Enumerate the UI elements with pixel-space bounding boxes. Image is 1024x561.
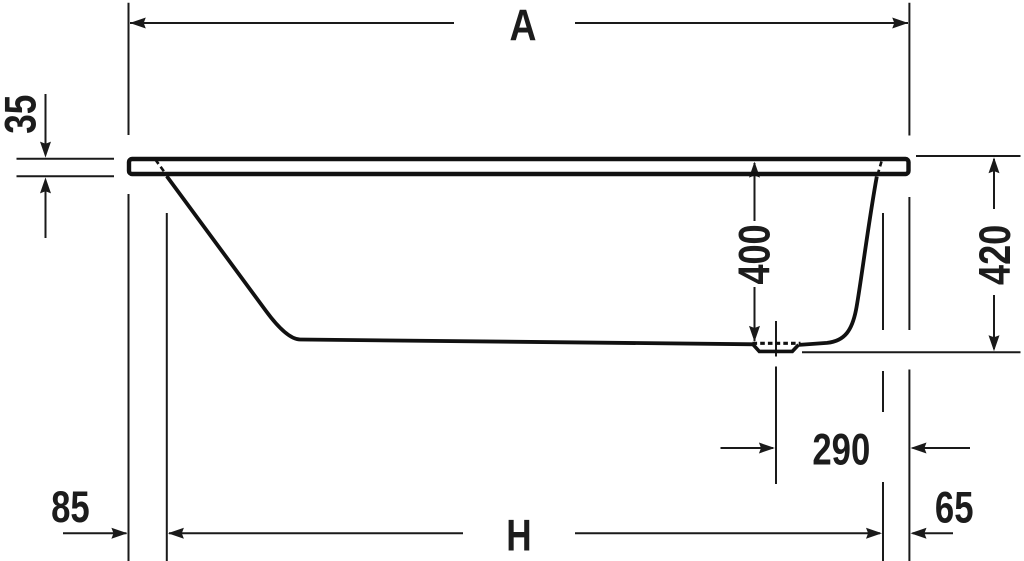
400 dimension line xyxy=(754,163,756,221)
svg-text:35: 35 xyxy=(0,95,46,134)
arrow 400 up xyxy=(749,162,760,178)
svg-text:420: 420 xyxy=(970,225,1021,285)
hidden edge dashed right xyxy=(878,162,882,176)
arrow 420 up xyxy=(989,157,1000,173)
arrow H right xyxy=(866,528,882,539)
arrow 420 down xyxy=(989,335,1000,351)
basin left wall and bottom xyxy=(167,176,756,344)
svg-text:400: 400 xyxy=(729,224,780,284)
290 dimension line xyxy=(721,447,774,449)
svg-text:A: A xyxy=(510,0,537,50)
extension line right outer top (A right) xyxy=(908,3,910,136)
extension line right inner segments xyxy=(882,213,884,330)
85 dimension line xyxy=(63,532,127,534)
hidden edge dashed left xyxy=(155,160,167,177)
arrow 35 up xyxy=(40,177,51,193)
extension line left outer bottom xyxy=(128,194,130,561)
drain recess xyxy=(753,345,798,352)
H dimension line xyxy=(169,532,463,534)
420 top extension line xyxy=(916,155,1021,157)
arrow 400 down xyxy=(749,326,760,342)
arrow A right xyxy=(892,18,908,29)
extension line left inner xyxy=(166,213,168,561)
arrow 290 left-side xyxy=(759,443,775,454)
35 dimension leaders xyxy=(45,94,47,155)
svg-text:85: 85 xyxy=(51,483,90,532)
arrow 290 right-side xyxy=(911,443,927,454)
rim flange bar xyxy=(129,159,909,174)
arrow 85 xyxy=(111,528,127,539)
tub profile xyxy=(129,159,909,351)
drain hatch dashes xyxy=(753,342,801,345)
svg-text:65: 65 xyxy=(935,484,974,533)
65 dimension line xyxy=(913,532,954,534)
dimension line A xyxy=(130,22,454,24)
extension line right outer segments xyxy=(908,197,910,330)
arrow H left xyxy=(168,528,184,539)
extension line left outer top (A left) xyxy=(128,3,130,135)
svg-text:290: 290 xyxy=(812,425,870,474)
arrow 35 down xyxy=(40,142,51,158)
420 dimension line xyxy=(993,159,995,209)
arrow 65 xyxy=(911,528,927,539)
arrow A left xyxy=(130,18,146,29)
basin right bottom and wall xyxy=(799,177,877,345)
svg-text:H: H xyxy=(506,511,531,560)
35 extension lines xyxy=(17,158,115,160)
floor reference line xyxy=(802,351,1021,353)
drain centre line xyxy=(775,321,777,357)
